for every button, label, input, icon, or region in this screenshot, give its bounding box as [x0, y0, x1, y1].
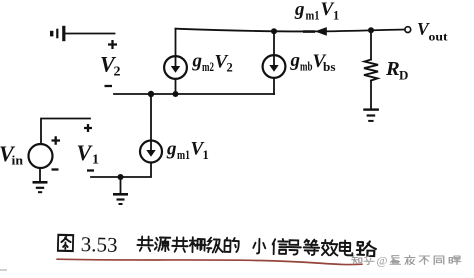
svg-text:g: g	[294, 0, 305, 20]
svg-text:m1: m1	[306, 8, 320, 22]
svg-text:1: 1	[333, 8, 339, 22]
svg-text:2: 2	[227, 61, 233, 75]
svg-text:in: in	[12, 153, 24, 168]
svg-text:m2: m2	[202, 60, 214, 74]
svg-text:V: V	[77, 140, 94, 165]
svg-text:m1: m1	[177, 148, 190, 162]
svg-text:g: g	[166, 139, 177, 160]
svg-text:g: g	[290, 50, 301, 71]
svg-text:@: @	[377, 254, 388, 268]
svg-text:1: 1	[203, 148, 209, 162]
svg-text:out: out	[429, 30, 448, 44]
svg-text:3.53: 3.53	[81, 232, 118, 257]
svg-text:bs: bs	[323, 60, 336, 74]
svg-text:mb: mb	[300, 60, 313, 74]
svg-text:g: g	[192, 51, 203, 72]
svg-text:2: 2	[114, 65, 121, 80]
svg-text:1: 1	[92, 153, 99, 168]
svg-text:R: R	[385, 58, 400, 80]
svg-text:D: D	[399, 68, 408, 83]
